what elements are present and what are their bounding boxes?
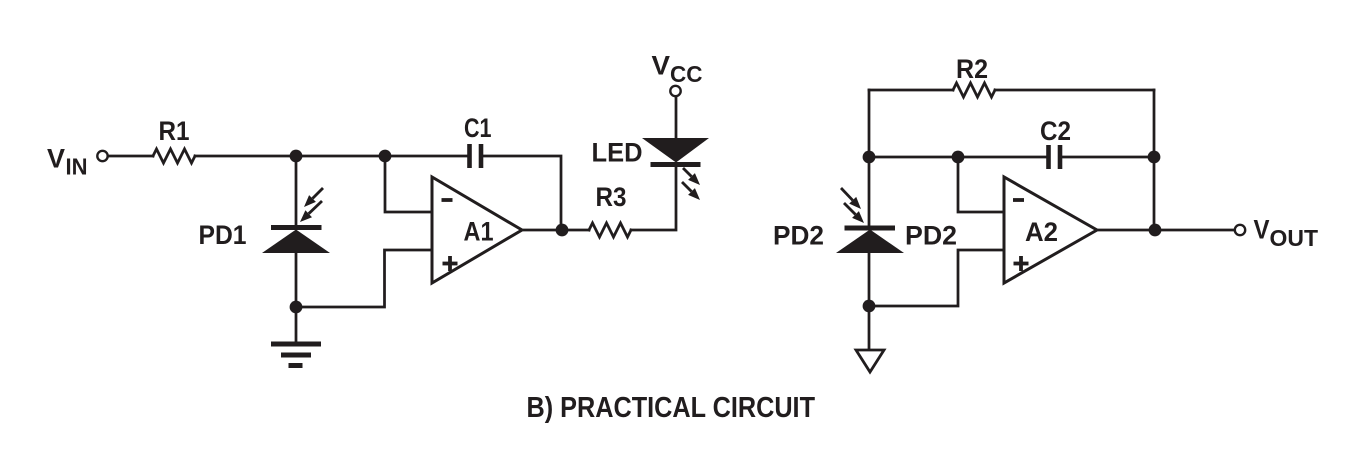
svg-text:V: V (652, 51, 671, 81)
svg-text:PD1: PD1 (199, 220, 247, 250)
svg-text:V: V (47, 144, 65, 174)
svg-text:PD2: PD2 (773, 221, 824, 251)
svg-text:B) PRACTICAL CIRCUIT: B) PRACTICAL CIRCUIT (527, 392, 816, 424)
svg-text:LED: LED (592, 138, 643, 168)
svg-text:A1: A1 (464, 217, 494, 247)
svg-text:CC: CC (670, 61, 703, 87)
svg-text:V: V (1254, 215, 1270, 245)
svg-text:PD2: PD2 (905, 221, 957, 251)
svg-text:R3: R3 (596, 182, 627, 212)
svg-text:C1: C1 (464, 113, 492, 143)
svg-text:R2: R2 (956, 54, 988, 84)
svg-text:A2: A2 (1025, 217, 1058, 247)
svg-text:OUT: OUT (1270, 225, 1319, 251)
svg-text:R1: R1 (159, 116, 190, 146)
svg-text:C2: C2 (1040, 116, 1071, 146)
svg-text:IN: IN (66, 154, 88, 180)
